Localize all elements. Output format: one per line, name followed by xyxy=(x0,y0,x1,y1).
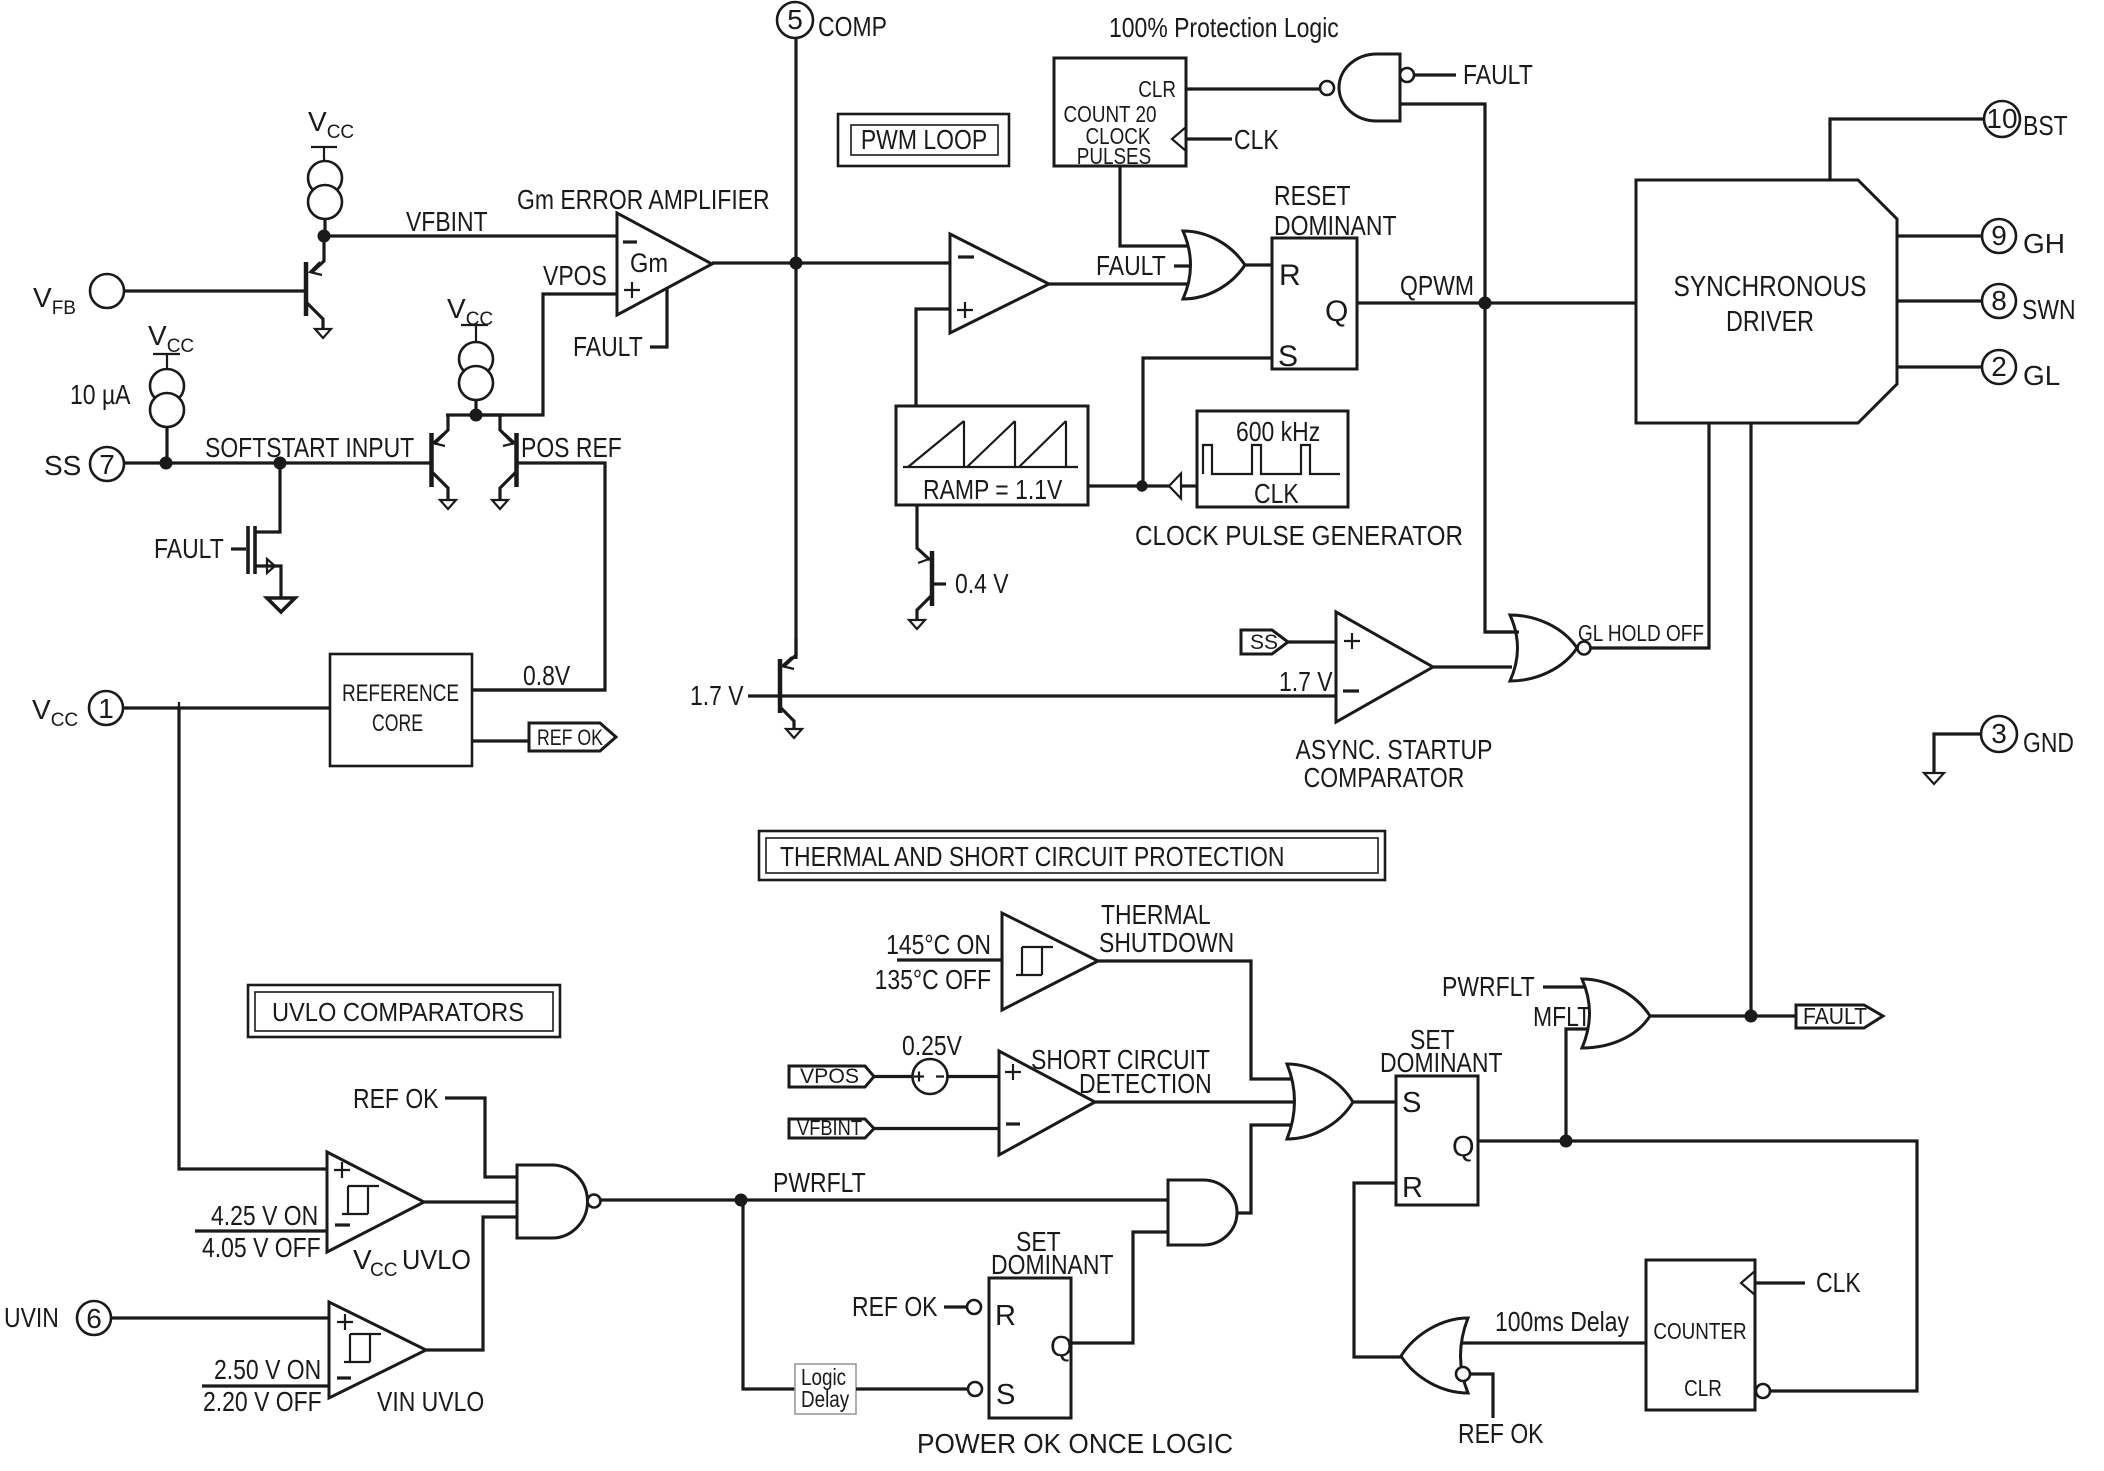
svg-text:3: 3 xyxy=(1991,718,2007,749)
svg-text:FAULT: FAULT xyxy=(1463,59,1533,90)
svg-text:GL HOLD OFF: GL HOLD OFF xyxy=(1578,620,1704,646)
svg-text:BST: BST xyxy=(2023,110,2068,141)
svg-text:135°C OFF: 135°C OFF xyxy=(875,964,991,995)
svg-text:R: R xyxy=(995,1300,1016,1332)
svg-text:FAULT: FAULT xyxy=(1803,1003,1867,1029)
svg-text:CLK: CLK xyxy=(1234,124,1279,155)
svg-text:Q: Q xyxy=(1325,295,1348,328)
svg-text:145°C ON: 145°C ON xyxy=(886,929,991,960)
svg-text:RESET: RESET xyxy=(1274,180,1351,211)
svg-text:CLK: CLK xyxy=(1816,1267,1861,1298)
svg-text:DRIVER: DRIVER xyxy=(1726,306,1814,338)
svg-text:FAULT: FAULT xyxy=(154,533,224,564)
svg-text:R: R xyxy=(1402,1172,1423,1204)
svg-text:FAULT: FAULT xyxy=(1096,250,1166,281)
svg-text:PWRFLT: PWRFLT xyxy=(1442,971,1535,1002)
svg-text:PWM LOOP: PWM LOOP xyxy=(861,124,987,155)
svg-text:2.50 V ON: 2.50 V ON xyxy=(214,1354,321,1385)
svg-text:COMPARATOR: COMPARATOR xyxy=(1304,762,1465,793)
svg-text:4.25 V ON: 4.25 V ON xyxy=(211,1200,318,1231)
svg-text:1.7 V: 1.7 V xyxy=(1279,666,1333,697)
svg-text:POWER OK ONCE LOGIC: POWER OK ONCE LOGIC xyxy=(917,1428,1233,1459)
svg-text:Delay: Delay xyxy=(801,1386,850,1412)
svg-text:8: 8 xyxy=(1991,285,2007,316)
svg-text:1: 1 xyxy=(98,693,114,724)
svg-text:6: 6 xyxy=(86,1303,102,1334)
svg-text:600 kHz: 600 kHz xyxy=(1236,416,1320,447)
svg-text:REF OK: REF OK xyxy=(1458,1418,1544,1449)
svg-text:RAMP = 1.1V: RAMP = 1.1V xyxy=(923,474,1063,505)
svg-text:SHUTDOWN: SHUTDOWN xyxy=(1099,927,1234,958)
svg-text:7: 7 xyxy=(99,449,115,480)
svg-text:VIN UVLO: VIN UVLO xyxy=(377,1386,484,1417)
svg-text:GL: GL xyxy=(2023,360,2060,391)
svg-text:REFERENCE: REFERENCE xyxy=(342,680,459,707)
svg-text:THERMAL: THERMAL xyxy=(1101,899,1211,930)
svg-text:ASYNC. STARTUP: ASYNC. STARTUP xyxy=(1296,734,1493,765)
svg-text:DETECTION: DETECTION xyxy=(1079,1068,1212,1099)
svg-text:GH: GH xyxy=(2023,228,2065,259)
svg-text:Gm ERROR AMPLIFIER: Gm ERROR AMPLIFIER xyxy=(517,184,770,215)
svg-text:UVLO: UVLO xyxy=(402,1244,471,1275)
svg-text:REF OK: REF OK xyxy=(353,1083,439,1114)
svg-text:0.8V: 0.8V xyxy=(523,660,570,691)
svg-text:UVLO COMPARATORS: UVLO COMPARATORS xyxy=(272,997,524,1027)
svg-text:10 µA: 10 µA xyxy=(70,379,131,410)
svg-text:REF OK: REF OK xyxy=(537,725,603,750)
svg-text:1.7 V: 1.7 V xyxy=(690,680,744,711)
svg-text:4.05 V OFF: 4.05 V OFF xyxy=(202,1232,321,1263)
svg-text:VPOS: VPOS xyxy=(543,260,607,291)
svg-text:GND: GND xyxy=(2023,727,2074,758)
svg-text:R: R xyxy=(1279,259,1301,292)
svg-text:2.20 V OFF: 2.20 V OFF xyxy=(203,1386,322,1417)
svg-text:0.25V: 0.25V xyxy=(902,1030,962,1061)
svg-text:Gm: Gm xyxy=(630,248,668,278)
svg-text:MFLT: MFLT xyxy=(1533,1001,1591,1032)
svg-text:S: S xyxy=(1402,1087,1421,1119)
svg-text:Q: Q xyxy=(1050,1331,1073,1363)
svg-text:SWN: SWN xyxy=(2022,294,2076,325)
svg-text:VFBINT: VFBINT xyxy=(797,1117,862,1140)
svg-text:POS REF: POS REF xyxy=(521,432,622,463)
svg-text:100ms Delay: 100ms Delay xyxy=(1495,1306,1629,1337)
svg-text:UVIN: UVIN xyxy=(4,1302,59,1333)
svg-text:COUNTER: COUNTER xyxy=(1653,1318,1746,1344)
svg-text:CORE: CORE xyxy=(372,710,423,737)
svg-text:9: 9 xyxy=(1991,220,2007,251)
svg-text:SYNCHRONOUS: SYNCHRONOUS xyxy=(1674,271,1867,303)
svg-text:FAULT: FAULT xyxy=(573,331,643,362)
svg-text:Q: Q xyxy=(1452,1131,1475,1163)
svg-text:5: 5 xyxy=(787,4,803,35)
svg-text:S: S xyxy=(996,1379,1015,1411)
svg-text:VFBINT: VFBINT xyxy=(406,206,488,237)
svg-text:CLR: CLR xyxy=(1684,1375,1722,1401)
svg-text:DOMINANT: DOMINANT xyxy=(1380,1047,1503,1078)
svg-text:CLR: CLR xyxy=(1138,76,1176,102)
svg-text:SS: SS xyxy=(44,450,81,481)
svg-text:DOMINANT: DOMINANT xyxy=(1274,210,1397,241)
svg-text:CLK: CLK xyxy=(1254,478,1299,509)
svg-text:PWRFLT: PWRFLT xyxy=(773,1167,866,1198)
svg-text:100% Protection Logic: 100% Protection Logic xyxy=(1109,12,1339,43)
svg-text:DOMINANT: DOMINANT xyxy=(991,1249,1114,1280)
svg-text:SOFTSTART INPUT: SOFTSTART INPUT xyxy=(205,432,414,463)
svg-text:2: 2 xyxy=(1991,351,2007,382)
svg-text:CC: CC xyxy=(370,1260,397,1281)
svg-text:CLOCK PULSE GENERATOR: CLOCK PULSE GENERATOR xyxy=(1135,520,1463,551)
svg-text:COMP: COMP xyxy=(818,11,887,42)
svg-text:0.4 V: 0.4 V xyxy=(955,568,1009,599)
svg-text:S: S xyxy=(1278,340,1298,373)
svg-text:10: 10 xyxy=(1986,103,2017,134)
svg-text:QPWM: QPWM xyxy=(1400,270,1474,301)
svg-text:REF OK: REF OK xyxy=(852,1291,938,1322)
svg-text:THERMAL AND SHORT CIRCUIT PROT: THERMAL AND SHORT CIRCUIT PROTECTION xyxy=(780,841,1284,872)
svg-text:SS: SS xyxy=(1250,631,1278,654)
svg-text:PULSES: PULSES xyxy=(1077,143,1151,169)
svg-text:VPOS: VPOS xyxy=(800,1065,859,1088)
